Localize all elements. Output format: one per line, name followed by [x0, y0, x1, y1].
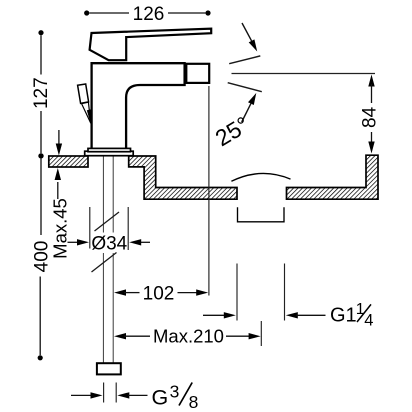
drain extension lines [236, 264, 238, 321]
leader arrow upper [242, 23, 252, 41]
dimension diameter 34 arrows [68, 241, 80, 243]
svg-text:126: 126 [133, 4, 165, 25]
dimension G 3/8 extension lines [103, 383, 105, 403]
svg-text:8: 8 [189, 392, 199, 412]
right rim Z-section of bidet (hatched) [129, 156, 237, 199]
dimension Max.45 lower arrow [57, 182, 59, 199]
Max.210 right extension line [260, 321, 262, 346]
lever movement indicator knob [78, 84, 89, 103]
spray cone upper line [229, 56, 260, 64]
dimension 127 left [38, 30, 43, 35]
drain outline [238, 207, 285, 222]
break slash 1 [95, 212, 120, 231]
outlet level reference line [232, 73, 376, 75]
supply pipe right line [112, 156, 114, 363]
dimension Max.210 [114, 333, 126, 339]
dimension 126 top [84, 10, 89, 15]
lever movement indicator arrow [82, 102, 91, 123]
faucet handle [90, 29, 212, 61]
dimension diameter 34 extension lines [89, 207, 91, 249]
supply pipe left line [102, 156, 104, 363]
dimension 84 right [368, 75, 374, 87]
dimension G 3/8 arrows [71, 394, 92, 396]
aerator [186, 64, 209, 83]
base plate upper tier [88, 148, 131, 151]
base plate lower tier [85, 151, 134, 156]
dimension 25 degrees leader [242, 104, 251, 122]
svg-text:Max.45: Max.45 [50, 198, 71, 259]
spray cone lower line [228, 83, 262, 92]
dimension 400 left [38, 355, 43, 360]
bowl arc [231, 173, 290, 181]
dimension 102 [114, 289, 126, 295]
svg-text:G: G [152, 386, 169, 410]
svg-text:127: 127 [31, 77, 52, 109]
svg-text:4: 4 [364, 311, 373, 329]
break slash 2 [92, 253, 117, 273]
svg-text:G1: G1 [330, 305, 357, 327]
svg-text:Max.210: Max.210 [153, 326, 224, 347]
dimension Max.45 upper arrow [58, 130, 60, 145]
faucet body and spout outline [92, 63, 185, 148]
left rim of bidet (hatched) [49, 156, 88, 167]
dimension G1 1/4 arrows [203, 314, 226, 316]
svg-text:Ø34: Ø34 [91, 234, 127, 255]
aerator extension line [208, 86, 210, 296]
svg-text:84: 84 [360, 106, 381, 128]
right floor and wall L-section of bidet (hatched) [287, 155, 379, 199]
connector box at pipe end [97, 363, 121, 374]
svg-text:3: 3 [170, 382, 180, 402]
svg-text:102: 102 [143, 284, 175, 305]
